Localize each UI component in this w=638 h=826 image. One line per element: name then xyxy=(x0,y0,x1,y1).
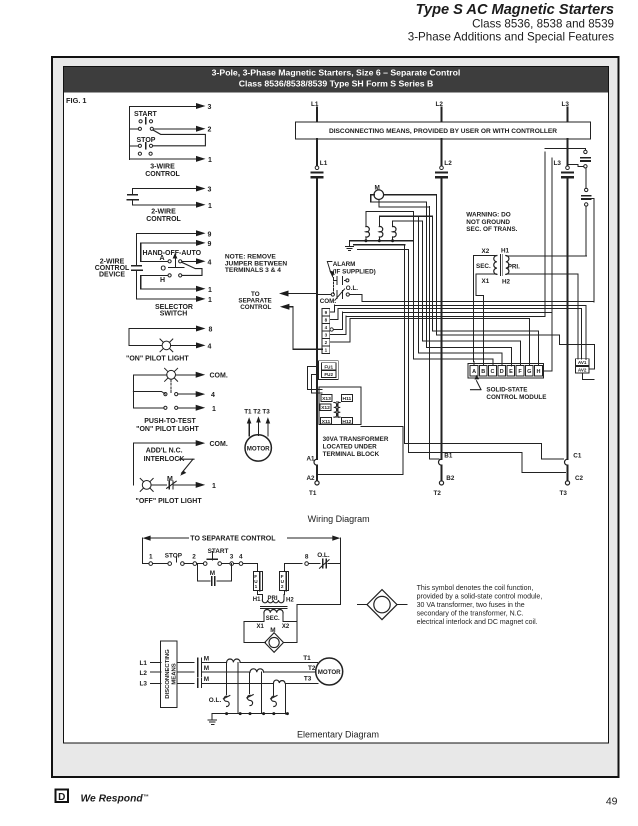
overload coil 1 xyxy=(366,212,413,241)
svg-text:PUSH-TO-TEST: PUSH-TO-TEST xyxy=(144,418,196,425)
svg-text:H1: H1 xyxy=(501,247,510,254)
captions xyxy=(297,514,379,740)
outer gray panel xyxy=(52,57,619,777)
svg-text:1: 1 xyxy=(208,287,212,294)
page header title xyxy=(408,2,614,44)
fuse FU1 xyxy=(253,572,262,591)
svg-text:D: D xyxy=(500,369,504,375)
svg-text:FU2: FU2 xyxy=(324,372,333,377)
wire H2 right xyxy=(507,274,578,359)
svg-text:1: 1 xyxy=(208,157,212,164)
svg-text:SEC. OF TRANS.: SEC. OF TRANS. xyxy=(466,226,517,233)
svg-text:AV2: AV2 xyxy=(578,368,587,373)
svg-text:3: 3 xyxy=(230,554,234,561)
phase line L2 xyxy=(441,178,443,459)
disconnecting means box xyxy=(296,122,591,139)
pilot light OFF xyxy=(140,478,166,491)
svg-text:L3: L3 xyxy=(140,681,148,688)
bottom routing wires xyxy=(405,444,566,473)
svg-text:O.L.: O.L. xyxy=(346,285,358,292)
svg-text:HAND-OFF-AUTO: HAND-OFF-AUTO xyxy=(143,250,202,257)
svg-text:SWITCH: SWITCH xyxy=(160,311,188,318)
right vertical feeders xyxy=(437,152,595,371)
svg-text:Type S AC Magnetic Starters: Type S AC Magnetic Starters xyxy=(416,2,614,18)
svg-text:We Respond™: We Respond™ xyxy=(81,794,149,805)
svg-text:8: 8 xyxy=(209,327,213,334)
left rail xyxy=(142,538,144,564)
svg-text:H11: H11 xyxy=(343,396,352,402)
svg-text:M: M xyxy=(204,665,209,672)
contact M n.c. interlock xyxy=(167,476,173,483)
wire bundle vertical v2 xyxy=(408,250,410,453)
svg-text:1: 1 xyxy=(255,584,258,589)
push-to-test contact row 2 xyxy=(164,405,216,413)
coil symbol diamond xyxy=(358,590,408,620)
wire X2 to module A xyxy=(473,256,496,366)
svg-text:SEC.: SEC. xyxy=(266,616,280,622)
svg-text:electrical interlock and DC ma: electrical interlock and DC magnet coil. xyxy=(417,619,538,626)
disconnect L1 with fuse xyxy=(312,139,328,177)
svg-text:2-WIRE: 2-WIRE xyxy=(151,208,176,215)
label push-to-test xyxy=(136,418,199,433)
motor elementary xyxy=(316,658,343,685)
svg-text:H: H xyxy=(537,369,541,375)
power line T2 with sensor loop xyxy=(201,665,316,672)
svg-text:3-WIRE: 3-WIRE xyxy=(150,163,175,170)
horizontal bundle h2 xyxy=(334,305,586,307)
svg-text:Wiring Diagram: Wiring Diagram xyxy=(308,514,370,524)
node L2 top xyxy=(436,101,444,122)
svg-text:L2: L2 xyxy=(444,160,452,167)
wire M coil bottom tap xyxy=(379,200,429,208)
terminal 2 xyxy=(184,554,196,566)
svg-text:"ON" PILOT LIGHT: "ON" PILOT LIGHT xyxy=(136,426,199,433)
selector inner rail wire to terminal 9 xyxy=(141,240,212,261)
svg-text:T3: T3 xyxy=(560,490,568,497)
wire H1 to fuse F2 xyxy=(507,255,587,257)
svg-text:FU1: FU1 xyxy=(324,364,333,369)
30VA transformer note xyxy=(323,436,389,458)
svg-text:3-Pole, 3-Phase Magnetic Start: 3-Pole, 3-Phase Magnetic Starters, Size … xyxy=(212,68,461,78)
pilot light ON xyxy=(129,339,212,352)
svg-text:L3: L3 xyxy=(554,160,562,167)
M contacts power xyxy=(177,655,209,687)
power line T3 with sensor loop xyxy=(201,676,318,684)
seal-in contact M xyxy=(198,564,232,586)
svg-text:"OFF" PILOT LIGHT: "OFF" PILOT LIGHT xyxy=(136,498,203,505)
wire start bypass to stop xyxy=(153,130,206,146)
svg-text:CONTROL MODULE: CONTROL MODULE xyxy=(486,394,546,401)
push-to-test dashed link xyxy=(170,380,172,393)
transformer block coils xyxy=(334,402,340,418)
interlock pointer arrow xyxy=(180,459,195,476)
svg-text:B1: B1 xyxy=(444,453,453,460)
svg-text:CONTROL: CONTROL xyxy=(145,171,180,178)
svg-text:8: 8 xyxy=(325,318,328,323)
svg-text:X2: X2 xyxy=(282,624,290,630)
svg-text:T2: T2 xyxy=(434,490,442,497)
svg-text:PRI.: PRI. xyxy=(508,263,520,270)
overload coil 3 xyxy=(393,221,422,241)
selector wire to terminal 1 (outer) xyxy=(136,270,212,304)
svg-text:A: A xyxy=(160,255,165,262)
svg-text:3: 3 xyxy=(208,104,212,111)
svg-text:M: M xyxy=(204,676,209,683)
svg-text:TERMINALS 3 & 4: TERMINALS 3 & 4 xyxy=(225,267,281,274)
svg-text:T1: T1 xyxy=(309,490,317,497)
ground symbol xyxy=(345,241,353,251)
horizontal bundle h5 xyxy=(346,316,545,318)
svg-text:H2: H2 xyxy=(286,597,294,603)
pilot light push-to-test xyxy=(165,368,228,381)
wire OL contact to h-bundle xyxy=(349,295,362,302)
svg-text:Class 8536, 8538 and 8539: Class 8536, 8538 and 8539 xyxy=(472,18,614,31)
dimension line to separate control xyxy=(143,536,341,543)
contact row COM / OL xyxy=(318,289,350,300)
push-to-test contact row 1 xyxy=(164,391,215,399)
wire 4 to fuse 1 xyxy=(243,564,258,572)
wire 3-wire top to terminal 3 xyxy=(130,103,212,160)
svg-text:2: 2 xyxy=(325,340,328,345)
svg-text:A2: A2 xyxy=(306,475,315,482)
svg-text:4: 4 xyxy=(208,343,212,350)
svg-text:MOTOR: MOTOR xyxy=(318,669,341,676)
svg-text:C2: C2 xyxy=(575,475,584,482)
svg-text:DISCONNECTING MEANS, PROVIDED: DISCONNECTING MEANS, PROVIDED BY USER OR… xyxy=(329,128,557,135)
wire 2-wire bottom to terminal 1 xyxy=(133,200,212,210)
svg-text:A: A xyxy=(472,369,476,375)
selector wire to terminal 1 (inner) xyxy=(141,275,212,293)
svg-text:H: H xyxy=(160,277,165,284)
wire 2-wire top to terminal 3 xyxy=(133,186,212,195)
to separate control arrow 1 xyxy=(251,291,318,298)
svg-text:AV1: AV1 xyxy=(578,360,587,365)
svg-text:1: 1 xyxy=(325,348,328,353)
svg-text:CONTROL: CONTROL xyxy=(146,216,181,223)
svg-text:B2: B2 xyxy=(446,475,455,482)
wire M coil left loop xyxy=(371,195,427,202)
selector outer rail wire to terminal 9 xyxy=(136,230,211,265)
svg-text:4: 4 xyxy=(208,259,212,266)
svg-text:9: 9 xyxy=(208,231,212,238)
svg-text:X13: X13 xyxy=(322,396,331,402)
fuse block pair FU xyxy=(319,361,339,380)
fuse blocks AV1 AV2 xyxy=(576,359,590,373)
svg-text:G: G xyxy=(527,369,531,375)
svg-text:3: 3 xyxy=(325,333,328,338)
svg-text:TERMINAL BLOCK: TERMINAL BLOCK xyxy=(323,451,380,458)
fuse F2 xyxy=(582,169,591,256)
svg-text:SEC.: SEC. xyxy=(476,263,491,270)
label 3-wire control xyxy=(145,163,180,178)
L1 L2 L3 leads xyxy=(140,660,162,688)
svg-text:C: C xyxy=(491,369,495,375)
svg-text:X1: X1 xyxy=(257,624,265,630)
svg-text:X12: X12 xyxy=(321,405,330,411)
label off pilot light xyxy=(136,498,203,505)
svg-text:WARNING: DO: WARNING: DO xyxy=(466,211,510,218)
wire bundle vertical v5 xyxy=(422,221,424,341)
control transformer xyxy=(476,247,520,285)
svg-text:4: 4 xyxy=(211,392,215,399)
horizontal bundle h1 xyxy=(362,301,594,303)
wire bundle vertical v6 xyxy=(426,202,428,347)
wire fuse2 to terminal 8 xyxy=(284,554,309,572)
svg-text:X1: X1 xyxy=(482,278,490,285)
svg-text:3-Phase Additions and Special: 3-Phase Additions and Special Features xyxy=(408,31,614,44)
horizontal bundle h4 xyxy=(342,312,552,314)
footer xyxy=(56,790,618,808)
svg-text:M: M xyxy=(167,476,173,483)
svg-text:8: 8 xyxy=(305,554,309,561)
wire bundle vertical v8 xyxy=(432,216,434,331)
svg-text:2: 2 xyxy=(281,584,284,589)
disconnecting means box (elementary) xyxy=(161,641,178,708)
disconnect L3 with fuse xyxy=(554,139,574,177)
power line T1 with sensor loop xyxy=(201,655,317,662)
OL heater elements xyxy=(209,695,277,707)
svg-text:T3: T3 xyxy=(304,676,312,683)
svg-text:2: 2 xyxy=(192,554,196,561)
svg-text:30 VA transformer, two fuses i: 30 VA transformer, two fuses in the xyxy=(417,602,525,609)
svg-text:DISCONNECTING: DISCONNECTING xyxy=(165,649,171,699)
secondary SEC xyxy=(264,610,283,622)
module stub wires C-H xyxy=(350,319,538,366)
svg-text:1: 1 xyxy=(212,406,216,413)
label on pilot light xyxy=(126,356,189,363)
X1 X2 labels xyxy=(257,624,290,634)
svg-text:D: D xyxy=(58,792,65,803)
coil loop with diamond xyxy=(244,622,297,653)
node L3 top xyxy=(562,101,570,122)
svg-text:T1: T1 xyxy=(303,655,311,662)
start pushbutton xyxy=(197,548,229,565)
svg-text:3: 3 xyxy=(208,187,212,194)
svg-text:FIG. 1: FIG. 1 xyxy=(66,96,87,105)
selector contact row A xyxy=(141,258,212,266)
svg-text:1: 1 xyxy=(149,554,153,561)
svg-text:X11: X11 xyxy=(322,419,331,425)
svg-text:MOTOR: MOTOR xyxy=(247,445,270,452)
label 2-wire control xyxy=(146,208,181,223)
2-wire control device contact xyxy=(127,195,138,200)
stack wires to horizontal bundle xyxy=(330,305,350,342)
svg-text:2: 2 xyxy=(208,127,212,134)
OL heater drops xyxy=(227,662,286,714)
contactor coil M xyxy=(374,184,384,199)
svg-text:1: 1 xyxy=(208,203,212,210)
svg-text:NOT GROUND: NOT GROUND xyxy=(466,219,510,226)
module pointer and label xyxy=(471,375,547,401)
svg-text:X2: X2 xyxy=(482,248,490,255)
svg-text:4: 4 xyxy=(239,554,243,561)
svg-text:9: 9 xyxy=(208,241,212,248)
symbol note text xyxy=(417,585,543,626)
label 2-wire control device xyxy=(95,258,130,278)
selector contact row H xyxy=(141,274,182,277)
svg-text:H2: H2 xyxy=(502,279,511,286)
pushbutton STOP (3-wire) xyxy=(137,137,156,144)
2-wire control device symbol on outer rail xyxy=(132,266,143,271)
terminal C1 C2 T3 xyxy=(560,453,584,497)
terminal strip 9-1 xyxy=(322,309,333,354)
phase line L3 xyxy=(567,178,569,459)
svg-text:MEANS: MEANS xyxy=(172,663,178,684)
bottom bus with ground xyxy=(208,712,289,724)
svg-text:H1: H1 xyxy=(253,597,261,603)
svg-text:INTERLOCK: INTERLOCK xyxy=(144,456,185,463)
svg-text:9: 9 xyxy=(325,310,328,315)
svg-text:L1: L1 xyxy=(140,660,148,667)
svg-text:STOP: STOP xyxy=(165,553,183,560)
motor with leads xyxy=(244,408,271,461)
svg-text:COM.: COM. xyxy=(210,373,228,380)
terminal block outer outline xyxy=(318,427,403,475)
terminal 1 xyxy=(143,554,153,566)
svg-text:Class 8536/8538/8539 Type SH F: Class 8536/8538/8539 Type SH Form S Seri… xyxy=(239,78,433,88)
lower tap wires to bundle xyxy=(354,245,409,250)
wire bundle vertical v3 xyxy=(413,212,415,360)
Square D logo xyxy=(56,790,69,803)
svg-text:L2: L2 xyxy=(140,670,148,677)
wire bundle vertical v7 xyxy=(429,207,431,460)
label hand-off-auto xyxy=(143,250,202,284)
selector bypass diagonal xyxy=(182,262,202,275)
wire ON pilot to terminal 8 xyxy=(129,326,213,346)
svg-text:1: 1 xyxy=(208,297,212,304)
O.L. alarm contact label xyxy=(346,285,358,292)
svg-text:This symbol denotes the coil f: This symbol denotes the coil function, xyxy=(417,585,534,592)
push-to-test wiring left xyxy=(133,375,166,408)
wires FU block to transformer terminals xyxy=(308,366,322,393)
svg-text:T2: T2 xyxy=(308,665,316,672)
svg-text:T1 T2 T3: T1 T2 T3 xyxy=(244,408,270,415)
svg-text:E: E xyxy=(509,369,513,375)
svg-text:LOCATED UNDER: LOCATED UNDER xyxy=(323,443,378,450)
svg-text:COM.: COM. xyxy=(210,441,228,448)
node L1 top xyxy=(311,101,319,122)
svg-text:COM.: COM. xyxy=(320,298,337,305)
svg-text:CONTROL: CONTROL xyxy=(240,304,271,311)
solid-state control module xyxy=(468,364,544,378)
horizontal bundle h6 xyxy=(350,318,529,320)
svg-text:B: B xyxy=(481,369,485,375)
fuse F1 on L3 branch xyxy=(545,149,590,169)
warning note xyxy=(466,211,517,233)
svg-text:4: 4 xyxy=(325,325,328,330)
wire X1 to module B xyxy=(476,274,497,365)
note remove jumper xyxy=(225,254,288,275)
svg-text:Elementary Diagram: Elementary Diagram xyxy=(297,730,379,740)
label addl nc interlock xyxy=(144,448,185,464)
svg-text:49: 49 xyxy=(606,796,618,808)
DIAGRAM xyxy=(95,103,288,505)
terminal A1 A2 T1 xyxy=(306,456,319,497)
to separate control arrow 2 xyxy=(238,297,322,349)
svg-text:C1: C1 xyxy=(573,453,582,460)
disconnect L2 with fuse xyxy=(436,139,452,177)
svg-text:O.L.: O.L. xyxy=(209,697,222,704)
wire bundle vertical v1 xyxy=(404,245,406,444)
wire start to terminal 2 xyxy=(154,126,212,134)
svg-text:30VA TRANSFORMER: 30VA TRANSFORMER xyxy=(323,436,389,443)
svg-text:O: O xyxy=(161,266,167,273)
label selector switch xyxy=(155,304,193,318)
wire bundle vertical v9 xyxy=(436,195,438,335)
svg-text:ALARM: ALARM xyxy=(333,261,356,268)
wire M coil right to bundle xyxy=(384,194,437,196)
overload contact OL xyxy=(308,552,340,568)
svg-text:(IF SUPPLIED): (IF SUPPLIED) xyxy=(333,269,376,276)
svg-text:H12: H12 xyxy=(342,419,351,425)
right feeder wire xyxy=(590,199,595,303)
selector handle arrow xyxy=(169,253,184,268)
junction bus under OL coils xyxy=(350,239,413,242)
stop pushbutton xyxy=(153,553,185,566)
svg-text:"ON" PILOT LIGHT: "ON" PILOT LIGHT xyxy=(126,356,189,363)
transformer core xyxy=(261,607,288,609)
svg-text:ADD'L N.C.: ADD'L N.C. xyxy=(146,448,183,455)
svg-text:TO SEPARATE CONTROL: TO SEPARATE CONTROL xyxy=(190,536,276,543)
phase line L1 xyxy=(316,178,318,459)
pushbutton START (3-wire) xyxy=(134,111,158,118)
svg-text:L1: L1 xyxy=(320,160,328,167)
svg-text:DEVICE: DEVICE xyxy=(99,272,125,279)
terminals 3 4 xyxy=(222,554,244,566)
fuse FU2 xyxy=(280,572,289,591)
svg-text:1: 1 xyxy=(212,483,216,490)
inner white panel xyxy=(64,67,609,744)
wire stop to terminal 1 xyxy=(130,156,213,164)
AV downstream wire xyxy=(583,374,595,380)
svg-text:SOLID-STATE: SOLID-STATE xyxy=(486,386,527,393)
primary H1 PRI H2 xyxy=(253,591,295,604)
horizontal bundle h3 xyxy=(338,308,581,310)
svg-text:START: START xyxy=(208,548,229,555)
COM label xyxy=(320,298,337,305)
svg-text:secondary of the transformer,: secondary of the transformer, N.C. xyxy=(417,611,524,618)
terminal B1 B2 T2 xyxy=(434,453,455,497)
alarm contact (if supplied) xyxy=(327,261,375,278)
wire bundle vertical v4 xyxy=(418,216,420,353)
alarm aux contact xyxy=(333,277,349,294)
transformer terminal block xyxy=(319,387,361,425)
svg-text:O.L.: O.L. xyxy=(317,552,330,559)
title bar xyxy=(64,67,608,93)
svg-text:provided by a solid-state cont: provided by a solid-state control module… xyxy=(417,594,543,601)
svg-text:M: M xyxy=(204,655,209,662)
overload coil 2 xyxy=(379,216,432,240)
wire addl interlock COM xyxy=(133,440,227,485)
right rail xyxy=(297,538,340,622)
